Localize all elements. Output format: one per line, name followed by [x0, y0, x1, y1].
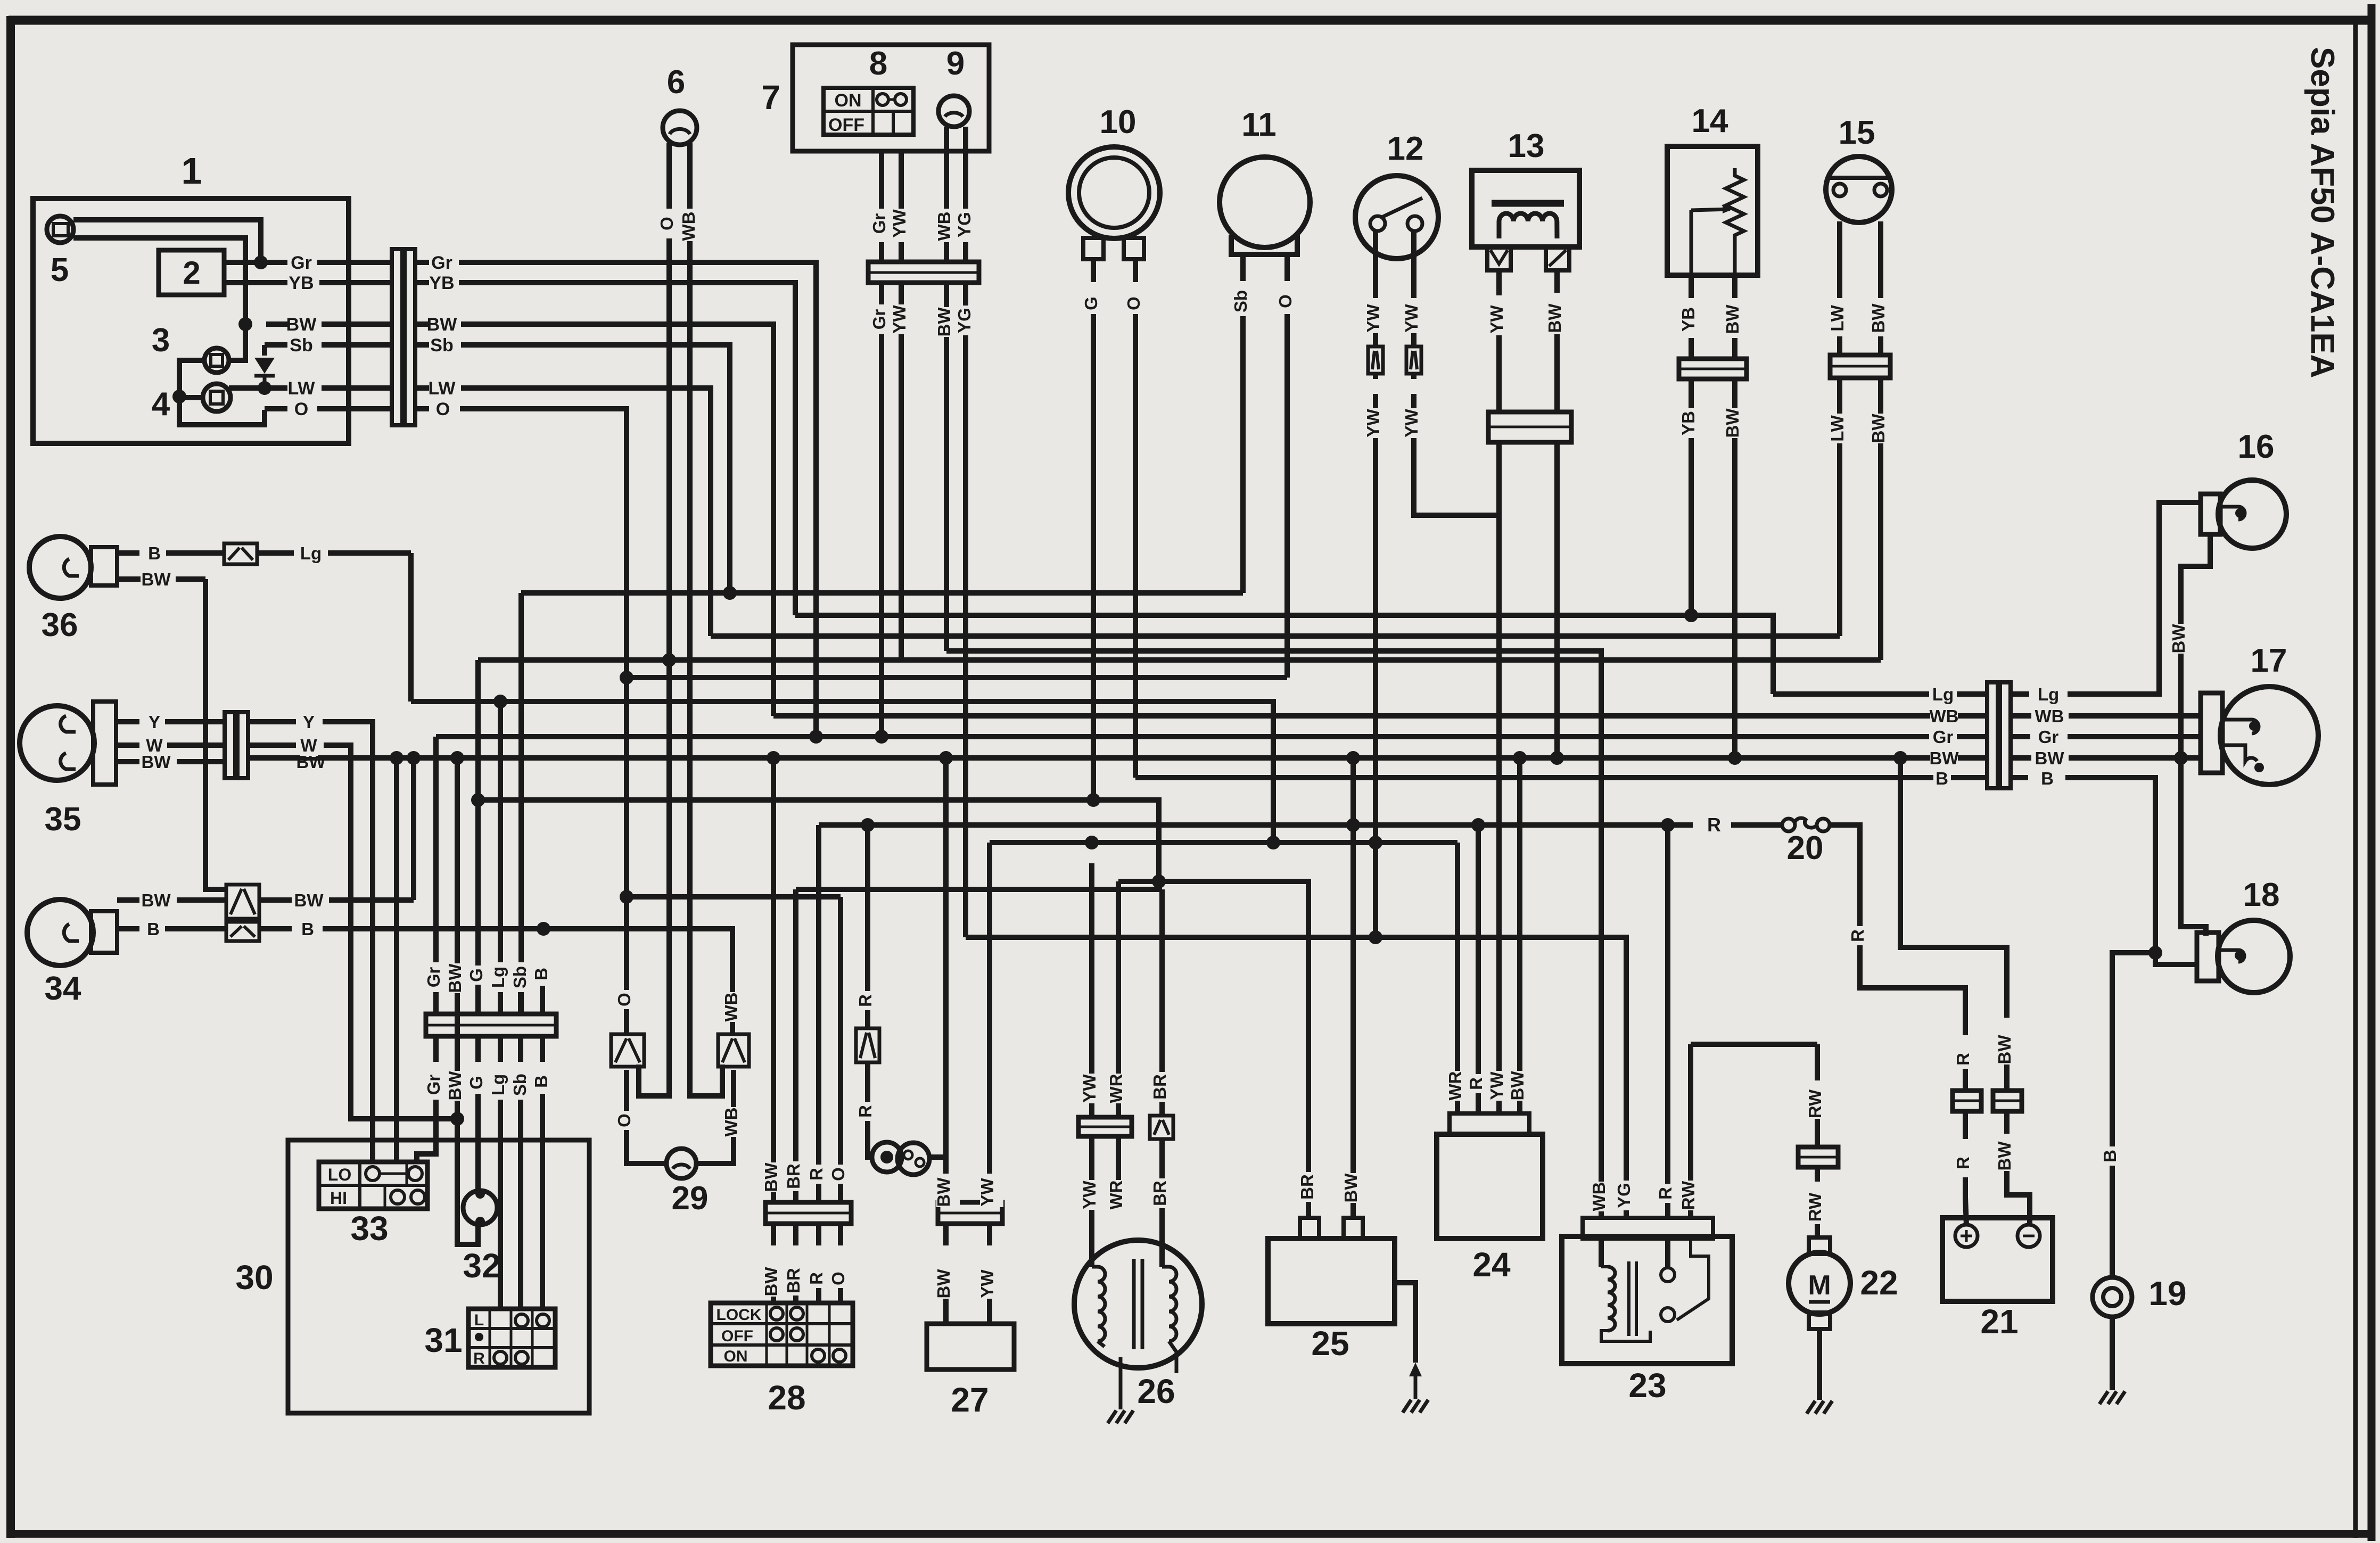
label R horn b [858, 1102, 882, 1121]
svg-text:30: 30 [235, 1258, 273, 1297]
bus RW [1691, 1042, 1817, 1047]
svg-text:15: 15 [1839, 114, 1875, 151]
relay 23 [1562, 1236, 1732, 1364]
label Gr rc l [1929, 727, 1957, 748]
bus Sb [521, 590, 1243, 596]
svg-text:BW: BW [2169, 624, 2188, 654]
wire O-11 down [1284, 314, 1290, 678]
flasher relay 14 [1667, 146, 1758, 275]
label R 23 [1658, 1184, 1682, 1203]
label O 28 t [831, 1165, 854, 1184]
socket 10 [1083, 238, 1103, 259]
svg-text:YW: YW [1402, 304, 1421, 333]
wire rc stubs r [2011, 691, 2029, 697]
svg-text:Gr: Gr [869, 309, 889, 330]
junction B19 [2148, 946, 2162, 960]
tail bulb 34 [27, 900, 93, 966]
wire 6 O [666, 143, 672, 209]
connector 27 [938, 1202, 1002, 1224]
diode [254, 358, 275, 374]
speedo lamp 11 [1220, 157, 1310, 247]
svg-text:B: B [301, 919, 314, 939]
lighting coil 3 [204, 348, 229, 373]
label WR 24 [1448, 1071, 1471, 1101]
svg-text:23: 23 [1628, 1366, 1666, 1405]
svg-text:B: B [2100, 1150, 2120, 1162]
svg-text:2: 2 [183, 255, 200, 291]
label B rc l [1933, 769, 1951, 790]
switch 12 contacts [1370, 216, 1385, 231]
svg-text:R: R [1707, 814, 1721, 836]
wire 5 to BW node [73, 238, 245, 324]
wire O to 29 [627, 1070, 667, 1164]
svg-text:21: 21 [1980, 1302, 2018, 1341]
wire horn stub [928, 1154, 946, 1160]
connector 33 [319, 1162, 427, 1209]
label O of6 [660, 214, 683, 233]
svg-text:BW: BW [142, 752, 171, 772]
wire BW 27 up [943, 758, 949, 1174]
svg-text:BW: BW [934, 1177, 953, 1207]
svg-text:R: R [855, 1105, 875, 1118]
wire Lg into 31 [498, 1094, 503, 1309]
wire Lg bundle [498, 702, 503, 1014]
svg-text:Lg: Lg [2038, 684, 2059, 704]
wire 36 B [117, 550, 139, 556]
label YW 26 b [1082, 1180, 1106, 1210]
ignition switch 28 [711, 1303, 853, 1366]
bus B [1135, 775, 1987, 780]
svg-text:3: 3 [152, 322, 170, 359]
wire BW to 3 [230, 324, 245, 360]
wire 34 B right [259, 926, 292, 931]
svg-text:BW: BW [761, 1267, 781, 1297]
brake unit 27 [927, 1324, 1014, 1369]
wire WR 26 up [1116, 881, 1121, 1117]
label BW bundle b [448, 1071, 471, 1101]
wire BW bat3 [2004, 1111, 2010, 1134]
wire RW 22 [1815, 1044, 1820, 1080]
svg-text:Y: Y [149, 712, 160, 732]
wire 10 O [1133, 259, 1138, 282]
wire x745 down [394, 758, 399, 1162]
label Sb bundle t [513, 962, 536, 992]
wire WR 24 up [1455, 843, 1460, 1113]
connector 22 [1798, 1147, 1838, 1167]
junction 3-4 [172, 390, 186, 403]
wire LW net [461, 388, 711, 636]
wire BW34 up [411, 758, 416, 900]
wire bundle stubs b [433, 1036, 439, 1062]
label R bat t [1956, 1050, 1979, 1069]
svg-text:R: R [855, 994, 875, 1007]
svg-text:YW: YW [977, 1269, 997, 1298]
label BW 28 t [764, 1162, 787, 1192]
svg-text:BW: BW [761, 1162, 781, 1192]
junction Gr box1 [809, 730, 823, 744]
svg-text:BW: BW [1995, 1141, 2014, 1171]
wire LW row [229, 385, 287, 391]
tail bulb 35 [20, 706, 94, 780]
wire BW row [266, 321, 287, 327]
svg-text:YG: YG [1614, 1183, 1634, 1208]
wire 12 YWa [1373, 231, 1378, 298]
svg-text:Sb: Sb [510, 1074, 530, 1096]
wire O stub [415, 406, 429, 411]
bulb 9 [938, 96, 969, 127]
wire R 23 up [1665, 825, 1670, 1218]
wire 8 YW [899, 151, 904, 209]
wire BW to 18b [2181, 758, 2206, 936]
wire RW 22 b [1815, 1167, 1820, 1182]
bullet 34a [226, 885, 259, 919]
border frame outer [9, 16, 2371, 25]
wire O 28 up [838, 897, 843, 1202]
pickup coil 5 [47, 216, 73, 243]
wire BR 28 up [793, 889, 798, 1202]
svg-text:8: 8 [869, 45, 887, 82]
svg-text:B: B [531, 1075, 551, 1088]
label BW 28 b [764, 1267, 787, 1297]
svg-text:Gr: Gr [2038, 727, 2059, 747]
svg-text:B: B [531, 968, 551, 980]
label BW 25 [1344, 1173, 1367, 1203]
svg-text:B: B [1936, 769, 1948, 788]
wire BW13 down [1554, 442, 1560, 758]
ground 26 [1107, 1415, 1134, 1416]
wire O net [460, 409, 627, 1036]
svg-text:YW: YW [890, 209, 909, 238]
connector 26a [1078, 1117, 1132, 1136]
box 30 [288, 1140, 589, 1413]
svg-text:YW: YW [890, 305, 909, 334]
battery plus [1955, 1225, 1978, 1247]
junction O 1177 [620, 890, 633, 904]
wire G-10 down [1091, 314, 1096, 800]
svg-text:R: R [473, 1350, 485, 1367]
label Sb bundle b [513, 1070, 536, 1100]
wire Gr-8 down [879, 283, 884, 737]
wire 28 stubs [771, 1224, 776, 1245]
svg-text:16: 16 [2238, 428, 2275, 465]
svg-text:YB: YB [429, 273, 454, 293]
svg-text:29: 29 [672, 1180, 709, 1217]
label BW of14 b [1725, 408, 1749, 438]
svg-text:BW: BW [1341, 1173, 1361, 1203]
svg-text:BW: BW [142, 890, 171, 910]
coil 13 winding [1499, 213, 1557, 238]
svg-text:33: 33 [350, 1209, 388, 1248]
junction BW bat [1893, 751, 1907, 765]
wire 13 BW [1554, 270, 1560, 293]
label O of10 [1126, 294, 1150, 313]
wire 14 BW [1732, 275, 1737, 298]
svg-text:6: 6 [667, 64, 685, 101]
label RW 22 t [1808, 1089, 1831, 1119]
label YW of12b [1404, 303, 1428, 333]
connector box1 [392, 249, 402, 425]
svg-text:BW: BW [1995, 1035, 2014, 1065]
svg-text:B: B [148, 543, 161, 563]
bulb 6 [663, 111, 697, 145]
svg-text:BW: BW [1545, 303, 1564, 333]
wire YG 23 [1624, 1174, 1629, 1218]
wire bundle stubs t [433, 986, 439, 1014]
cdi 25 [1268, 1239, 1395, 1324]
bullet 26b [1150, 1116, 1173, 1139]
wire G bundle [475, 660, 481, 1014]
wire 22 gnd [1817, 1329, 1822, 1400]
label O of11 [1278, 292, 1302, 311]
arrow 14 [1691, 209, 1730, 210]
wire WB 23 [1599, 1174, 1604, 1218]
svg-text:R: R [1466, 1077, 1486, 1090]
junction R 23 [1661, 818, 1675, 832]
wire 13 YW [1496, 270, 1502, 295]
label R fuse down [1850, 926, 1874, 945]
svg-text:O: O [436, 399, 450, 419]
wire 15 BW [1878, 221, 1883, 298]
svg-text:Gr: Gr [869, 213, 889, 234]
junction YB14 [1684, 608, 1698, 622]
svg-text:O: O [614, 993, 634, 1006]
svg-text:12: 12 [1387, 130, 1424, 167]
label YW of12a b [1366, 408, 1389, 438]
junction BW [238, 317, 252, 331]
svg-text:BW: BW [297, 752, 326, 772]
wire BW into 32 [457, 1094, 478, 1244]
wire rc stubs l [1963, 691, 1987, 697]
label YB of14 [1681, 304, 1704, 334]
svg-text:BR: BR [1150, 1074, 1170, 1100]
regulator 24 [1437, 1134, 1543, 1239]
label BW of15 b [1871, 414, 1895, 443]
wire Lg to 16 [2068, 502, 2201, 694]
bus Gr [436, 734, 1987, 739]
bus O2 [627, 894, 841, 900]
junction BW25 [1346, 751, 1360, 765]
wire 13 BW mid [1554, 334, 1560, 412]
wire 8-9 stubs [879, 242, 884, 262]
bus R [819, 822, 1693, 828]
label Gr bundle b [426, 1070, 450, 1100]
wire YG-9 down [963, 283, 968, 937]
label BW 16 [2171, 624, 2195, 654]
wire 9 WB [944, 127, 949, 209]
label RW 22 b [1808, 1192, 1831, 1222]
label R bat b [1956, 1153, 1979, 1173]
svg-text:WB: WB [721, 993, 741, 1022]
svg-text:Sb: Sb [430, 335, 453, 356]
label WB 29 t [724, 992, 747, 1022]
svg-text:M: M [1808, 1270, 1831, 1301]
wire 34 BW [117, 897, 139, 903]
svg-text:RW: RW [1805, 1192, 1825, 1222]
bus WB [773, 713, 1987, 719]
wire R 28 up [816, 825, 821, 1202]
svg-text:G: G [466, 1076, 486, 1090]
wire 8 Gr [879, 151, 884, 209]
label Sb of11 [1233, 286, 1257, 316]
wire 9 YG [963, 127, 968, 209]
wire 6 WB down [690, 241, 722, 1096]
wire 19 gnd [2110, 1317, 2115, 1390]
wire O row [265, 406, 287, 411]
wire YB14 down [1689, 379, 1694, 615]
wire BR 25 [1306, 1172, 1311, 1218]
wire Sb-11 down [1240, 314, 1246, 593]
svg-text:BR: BR [1150, 1181, 1170, 1206]
svg-text:ON: ON [724, 1348, 748, 1365]
connector 8-9 [868, 262, 979, 283]
svg-text:36: 36 [42, 607, 78, 643]
svg-text:20: 20 [1787, 830, 1824, 867]
wire Gr net [459, 262, 816, 737]
bus Lg left [411, 702, 1273, 843]
wire BW net [461, 324, 773, 716]
wire 14 YB [1689, 275, 1694, 298]
wire YB stub [415, 280, 429, 285]
dimmer switch 8 [823, 88, 913, 135]
junction BW 17 [2174, 751, 2188, 765]
fuse 20 [1731, 822, 1783, 828]
wire BW14 down [1732, 379, 1737, 758]
svg-text:ON: ON [835, 90, 862, 111]
svg-text:27: 27 [951, 1381, 989, 1419]
wire YW 27 up [987, 843, 992, 1174]
label Lg bundle t [491, 962, 514, 992]
svg-text:YB: YB [1678, 411, 1698, 435]
bus G [478, 800, 1159, 881]
svg-text:5: 5 [51, 252, 69, 288]
connector 15 [1830, 355, 1890, 378]
label WR 26 b [1109, 1180, 1132, 1210]
bus Lg right [1773, 691, 1987, 697]
bus O [627, 675, 1287, 680]
wire BW bat2 [2004, 1065, 2010, 1091]
junction O bus [620, 671, 633, 684]
junction BW14 [1728, 751, 1742, 765]
label WB of9 [937, 211, 960, 241]
svg-text:YW: YW [1080, 1181, 1099, 1209]
junction BW27 [939, 751, 953, 765]
connector bat BW [1993, 1091, 2022, 1111]
wire 34 BW right [259, 897, 292, 903]
svg-text:LOCK: LOCK [717, 1306, 762, 1324]
wire 5 to Gr node [73, 220, 261, 262]
svg-text:Sb: Sb [1231, 290, 1250, 312]
label R 28 b [809, 1269, 833, 1288]
svg-text:10: 10 [1100, 104, 1137, 141]
svg-text:O: O [614, 1113, 634, 1127]
svg-text:Lg: Lg [1932, 684, 1954, 704]
connector 14 [1679, 359, 1747, 379]
svg-text:L: L [474, 1311, 484, 1329]
svg-text:BW: BW [1723, 408, 1742, 438]
label YW 27 b [980, 1269, 1003, 1299]
svg-text:LO: LO [328, 1165, 351, 1184]
wire 14 stubs [1689, 338, 1694, 359]
connector right [1987, 682, 1998, 788]
conn 13b [1546, 247, 1569, 270]
connector 28 [765, 1202, 851, 1224]
wire Gr from 2 [224, 260, 287, 265]
magneto 26 [1074, 1240, 1202, 1368]
label BW rc l [1930, 748, 1958, 770]
svg-text:Lg: Lg [300, 543, 322, 563]
wire 6 WB [687, 143, 693, 209]
svg-text:LW: LW [429, 378, 456, 399]
svg-text:YB: YB [289, 273, 314, 293]
bus WR-25 [1118, 881, 1308, 1218]
socket 11 [1231, 235, 1297, 254]
label BW of15 [1871, 303, 1895, 333]
svg-text:Lg: Lg [488, 1074, 508, 1095]
svg-text:35: 35 [45, 801, 81, 838]
svg-text:WR: WR [1106, 1074, 1126, 1103]
magneto box 1 [33, 199, 349, 443]
svg-text:Sb: Sb [510, 966, 530, 988]
connector 13 [1488, 412, 1571, 442]
ground 19 [2098, 1396, 2126, 1397]
svg-text:BR: BR [784, 1268, 803, 1293]
pilot box 15 [1826, 156, 1892, 222]
svg-text:Lg: Lg [488, 967, 508, 988]
junction W-BW [450, 1112, 464, 1126]
svg-text:BW: BW [934, 307, 954, 337]
svg-text:18: 18 [2243, 877, 2280, 913]
wire 27 stubs [943, 1224, 949, 1245]
wire 4 left [179, 398, 265, 425]
label Gr of8 b [872, 304, 895, 334]
wire YW12a down [1373, 374, 1378, 379]
wire R horn [865, 825, 870, 1028]
label BW 27 b [936, 1269, 960, 1299]
bullet 12b [1411, 327, 1417, 346]
wire 26 gnd [1116, 1136, 1121, 1208]
battery 21 [1942, 1218, 2053, 1301]
switch box 7 [793, 45, 989, 151]
wire Sb net [461, 345, 730, 593]
wire BW-9 down [944, 283, 949, 651]
svg-text:YG: YG [954, 308, 974, 333]
label BW of9 b [937, 307, 960, 337]
label O 28 b [831, 1269, 854, 1288]
label B 19 [2103, 1146, 2126, 1166]
wire BW36 down [205, 579, 226, 889]
junction BW mid [390, 751, 403, 765]
conn 13a [1487, 247, 1511, 270]
svg-text:YB: YB [1678, 307, 1698, 332]
label YW of12a [1366, 303, 1389, 333]
label BR 26 b [1152, 1178, 1176, 1208]
wire B 19 [2112, 953, 2155, 1277]
wire 35 Y [116, 719, 139, 724]
svg-text:R: R [1656, 1187, 1675, 1200]
wire RW 23 up [1688, 1044, 1693, 1218]
resistor 14 [1726, 168, 1744, 275]
bus WB-9 [946, 651, 1601, 1174]
svg-text:O: O [1275, 294, 1295, 308]
wire Gr stub [415, 260, 429, 265]
svg-text:WB: WB [1589, 1182, 1609, 1211]
svg-text:1: 1 [182, 150, 202, 192]
wire BW bundle [455, 758, 460, 1119]
wire 11 O [1284, 254, 1290, 281]
wire YW 26 up [1089, 863, 1094, 1117]
label O 29 t [617, 990, 640, 1009]
label G of10 [1084, 294, 1107, 313]
